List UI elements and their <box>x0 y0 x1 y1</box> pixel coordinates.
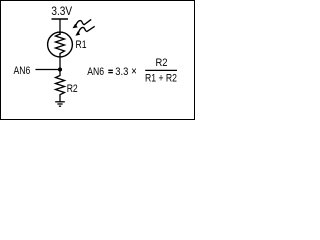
label R1 <box>76 39 87 51</box>
label R2 <box>67 83 78 95</box>
equation text: AN6 <box>87 66 104 78</box>
svg-text:R1 + R2: R1 + R2 <box>145 72 177 84</box>
wire: AN6 to junction <box>36 69 61 71</box>
svg-text:R1: R1 <box>76 39 87 51</box>
svg-text:R2: R2 <box>67 83 78 95</box>
equation text: multiply sign <box>131 66 137 79</box>
svg-text:×: × <box>131 66 137 79</box>
light arrow 2 <box>75 26 94 35</box>
wire: supply to R1 <box>59 19 61 35</box>
photoresistor R1 circle <box>48 32 73 57</box>
light arrow 1 <box>73 19 92 28</box>
equation text: equals <box>108 70 113 74</box>
equation denominator R1 + R2 <box>145 72 177 84</box>
photoresistor R1 zigzag <box>56 33 65 58</box>
junction dot node AN6 <box>58 67 62 71</box>
node label AN6 <box>14 65 31 77</box>
equation text: 3.3 <box>115 66 128 78</box>
svg-text:3.3V: 3.3V <box>51 5 72 18</box>
svg-text:3.3: 3.3 <box>115 66 128 78</box>
equation numerator R2 <box>155 57 167 69</box>
wire: R1 to R2 <box>59 57 61 76</box>
ground symbol <box>55 102 65 106</box>
svg-text:AN6: AN6 <box>87 66 104 78</box>
power rail 3.3V bar <box>52 18 69 20</box>
supply label 3.3V <box>51 5 72 18</box>
equation fraction bar <box>145 69 177 71</box>
resistor R2 zigzag <box>56 76 65 102</box>
svg-text:AN6: AN6 <box>14 65 31 77</box>
svg-text:R2: R2 <box>155 57 167 69</box>
